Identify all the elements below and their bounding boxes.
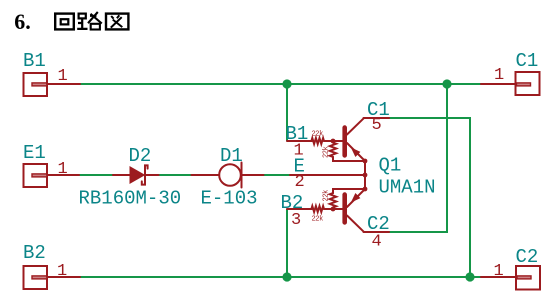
svg-text:RB160M-30: RB160M-30: [79, 188, 182, 210]
svg-text:1: 1: [494, 66, 504, 85]
collector diagonal upper: [347, 118, 364, 134]
pin 2 (E): [290, 174, 365, 176]
svg-text:C1: C1: [516, 50, 539, 72]
emitter diagonal upper with arrow: [347, 143, 365, 161]
svg-text:D2: D2: [129, 145, 152, 167]
svg-text:C2: C2: [516, 246, 539, 268]
node dots: [363, 159, 368, 164]
emitter diagonal lower with arrow: [347, 189, 365, 207]
svg-text:22k: 22k: [312, 130, 324, 138]
wire cross-link top rail to Q1 C2: [389, 84, 447, 232]
connector C1: [481, 50, 540, 95]
wire bottom rail B2-C2: [80, 276, 481, 278]
resistor R1 lower 22k: [311, 206, 342, 212]
wire D1 to Q1: [264, 174, 291, 176]
wire bottom junction up to Q1 B2: [286, 209, 288, 277]
svg-text:1: 1: [58, 67, 68, 86]
kanji 回: [55, 14, 74, 30]
svg-text:UMA1N: UMA1N: [379, 177, 436, 199]
wire E1 to D2: [79, 174, 114, 176]
svg-text:1: 1: [494, 262, 504, 281]
diode D1 E-103 (CRD): [192, 145, 264, 210]
connector E1: [23, 142, 79, 187]
title "6. 回路図": [14, 9, 128, 34]
diode D2 RB160M-30 (Schottky): [79, 145, 182, 210]
svg-text:B1: B1: [23, 50, 46, 72]
pin 4 (C2): [364, 231, 390, 233]
junction top-right: [442, 79, 451, 88]
kanji 図: [106, 14, 128, 30]
junction top-left: [282, 79, 291, 88]
wire top rail B1-C1: [80, 83, 481, 85]
pin 1 (B1): [287, 140, 312, 142]
wire top junction down to Q1 B1: [286, 84, 288, 141]
wire D2 to D1: [159, 174, 192, 176]
connector C2: [481, 246, 540, 290]
connector B2: [23, 242, 80, 289]
base bar upper: [342, 128, 347, 156]
node B1-R junction: [331, 139, 336, 144]
svg-text:3: 3: [291, 211, 301, 230]
svg-text:1: 1: [57, 262, 67, 281]
svg-text:22k: 22k: [323, 190, 331, 202]
svg-text:E1: E1: [23, 142, 46, 164]
kanji 路: [77, 12, 102, 30]
resistor R1 upper 22k: [311, 138, 342, 144]
svg-text:E-103: E-103: [201, 188, 258, 210]
svg-text:2: 2: [295, 173, 305, 192]
svg-text:22k: 22k: [323, 146, 331, 158]
transistor Q1 UMA1N (dual PNP with built-in resistors): [281, 99, 436, 252]
wire Q1 C1 to bottom rail: [389, 118, 470, 277]
svg-text:1: 1: [58, 160, 68, 179]
svg-text:D1: D1: [220, 145, 243, 167]
svg-text:B2: B2: [23, 242, 46, 264]
svg-text:22k: 22k: [312, 215, 324, 223]
emitter bus: [364, 161, 366, 189]
resistor R2 lower 22k (vertical): [330, 189, 365, 209]
junction bottom-left: [282, 272, 291, 281]
pin 3 (B2): [287, 208, 312, 210]
svg-text:6.: 6.: [14, 9, 31, 34]
svg-text:Q1: Q1: [379, 155, 402, 177]
svg-text:5: 5: [372, 116, 382, 135]
connector B1: [23, 50, 80, 96]
junction bottom-right: [465, 272, 474, 281]
svg-text:4: 4: [372, 233, 382, 252]
base bar lower: [342, 195, 347, 223]
resistor R2 upper 22k (vertical): [330, 141, 365, 161]
pin 5 (C1): [364, 117, 390, 119]
collector diagonal lower: [347, 216, 364, 232]
